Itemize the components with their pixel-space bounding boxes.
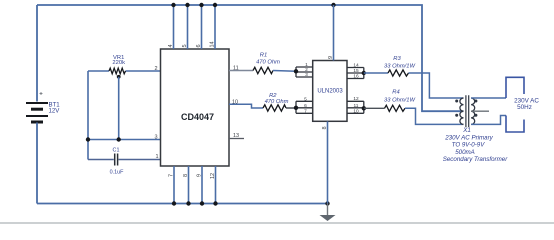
svg-text:Secondary Transformer: Secondary Transformer <box>443 156 508 163</box>
svg-text:2: 2 <box>305 67 308 73</box>
wire pin 10 to R2 <box>229 104 263 108</box>
wire pin 8 to 0V <box>188 166 190 204</box>
svg-text:R4: R4 <box>392 90 399 96</box>
ULN pin labels left <box>304 62 308 114</box>
battery BT1 12V <box>26 103 48 122</box>
svg-text:1: 1 <box>155 154 158 160</box>
wire pin 6 to +12V <box>201 5 203 49</box>
VR1 labels <box>112 55 125 66</box>
ULN input stubs 5 6 7 <box>296 101 313 113</box>
ground symbol <box>320 204 336 222</box>
IC U2 ULN2003 body <box>313 61 347 122</box>
wire ULN outputs to R4 <box>364 107 385 109</box>
wire R4 to transformer primary bottom <box>405 108 464 124</box>
CD4047 pin number labels right <box>232 66 239 140</box>
junction dot outputs 10-12 <box>362 106 366 110</box>
svg-text:230V AC Primary: 230V AC Primary <box>444 134 493 141</box>
wire battery negative down <box>36 123 38 204</box>
junction dots bottom rail <box>172 201 330 205</box>
wire pin 3 row <box>88 139 161 141</box>
wire secondary top to load <box>471 97 506 99</box>
wire ULN pin 9 to +12V <box>333 5 335 61</box>
svg-text:7: 7 <box>304 108 307 114</box>
svg-text:R3: R3 <box>393 56 401 62</box>
svg-text:TO 9V-0-9V: TO 9V-0-9V <box>452 142 486 149</box>
ULN output stubs 12 11 10 <box>347 101 364 113</box>
svg-text:ULN2003: ULN2003 <box>317 89 343 95</box>
wire VR1 row to CD4047 pin 2 <box>88 70 161 72</box>
svg-text:0.1uF: 0.1uF <box>110 169 124 175</box>
junction dot inputs 1-3 <box>294 69 298 73</box>
junction node pin3 row left <box>86 137 90 141</box>
svg-text:11: 11 <box>354 103 359 109</box>
CD4047 pin 13 stub <box>229 138 244 140</box>
svg-text:12: 12 <box>353 96 359 102</box>
ULN pin labels right <box>353 62 359 114</box>
wire pin 7 to 0V <box>173 166 175 204</box>
capacitor C1 0.1uF <box>115 154 118 166</box>
svg-text:6: 6 <box>304 103 307 109</box>
load labels <box>514 97 539 111</box>
CD4047 bottom pin labels 7 8 9 12 <box>169 173 217 179</box>
C1 labels <box>110 148 124 176</box>
CD4047 top pin labels 4 5 6 14 <box>168 41 216 47</box>
R2 labels <box>265 93 289 105</box>
wire +12V top rail to transformer center tap <box>37 5 464 111</box>
junction dots top rail <box>171 3 335 7</box>
wire pin 5 to +12V <box>187 5 189 49</box>
svg-text:15: 15 <box>353 68 359 74</box>
battery label BT1 12V <box>49 101 61 114</box>
R4 labels <box>384 90 415 104</box>
resistor R1 470 Ohm <box>253 67 273 73</box>
R3 labels <box>384 56 415 69</box>
svg-text:C1: C1 <box>113 148 120 154</box>
R1 labels <box>256 53 280 66</box>
VR1 wiper dot <box>117 75 121 79</box>
svg-text:50Hz: 50Hz <box>517 104 532 111</box>
wire pin 14 to +12V <box>214 5 216 49</box>
CD4047 pin number labels left <box>154 66 158 160</box>
wire pin 4 to +12V <box>173 5 175 49</box>
svg-text:500mA: 500mA <box>455 149 475 156</box>
svg-text:33 Ohm/1W: 33 Ohm/1W <box>384 98 415 104</box>
svg-text:220k: 220k <box>112 60 125 66</box>
svg-text:3: 3 <box>154 134 157 140</box>
wire R1 to ULN2003 inputs 1-3 <box>273 70 296 73</box>
svg-text:5: 5 <box>304 96 307 102</box>
transformer phase dots <box>455 100 477 117</box>
wire secondary bottom to load <box>471 116 506 125</box>
resistor R2 470 Ohm <box>263 105 286 111</box>
transformer core <box>466 95 469 127</box>
wire pin 12 to 0V <box>215 166 217 204</box>
resistor R4 33 Ohm/1W <box>385 105 406 111</box>
svg-text:16: 16 <box>353 74 359 80</box>
wire C1 to pin 1 <box>119 159 161 161</box>
svg-text:R1: R1 <box>260 53 267 59</box>
load 230V AC outline <box>506 77 524 98</box>
svg-text:12V: 12V <box>49 108 61 115</box>
svg-text:3: 3 <box>305 72 308 78</box>
wire R3 to transformer primary top <box>409 73 464 98</box>
ULN output stubs 14 15 16 <box>347 68 364 79</box>
junction node pin3 row wiper <box>117 137 121 141</box>
wire R2 to ULN2003 inputs 5-7 <box>286 107 296 109</box>
svg-text:14: 14 <box>353 62 359 68</box>
secondary center floating stub <box>471 110 489 112</box>
svg-text:470 Ohm: 470 Ohm <box>256 59 280 65</box>
svg-text:2: 2 <box>154 66 157 72</box>
wire pin 9 to 0V <box>201 166 203 204</box>
wire ULN outputs to R3 <box>364 72 388 74</box>
potentiometer VR1 220k zigzag <box>109 68 126 74</box>
svg-text:X1: X1 <box>462 127 471 134</box>
separator line bottom <box>0 222 554 224</box>
wire VR1 wiper to pin3 row <box>118 77 120 140</box>
svg-text:10: 10 <box>353 108 359 114</box>
transformer X1 right winding <box>471 98 475 124</box>
svg-text:470 Ohm: 470 Ohm <box>265 99 289 105</box>
wire pin 11 to R1 <box>229 70 253 72</box>
wire ULN pin 8 to 0V <box>327 121 329 203</box>
svg-text:CD4047: CD4047 <box>181 112 214 122</box>
battery plus mark <box>40 92 43 95</box>
svg-text:R2: R2 <box>269 93 277 99</box>
IC U1 CD4047 body <box>161 49 230 166</box>
transformer X1 left winding <box>460 98 464 124</box>
junction dot outputs 14-16 <box>362 71 366 75</box>
resistor R3 33 Ohm/1W <box>388 70 409 76</box>
svg-text:33 Ohm/1W: 33 Ohm/1W <box>384 63 415 69</box>
wire left branch vertical node <box>87 71 89 160</box>
wire pin 1 row left of C1 <box>88 159 114 161</box>
ULN input stubs 1 2 3 <box>296 67 313 77</box>
wire battery positive vertical <box>36 5 38 102</box>
junction dot inputs 5-7 <box>294 106 298 110</box>
wire 0V bottom rail <box>37 203 328 205</box>
transformer X1 labels <box>443 127 508 163</box>
